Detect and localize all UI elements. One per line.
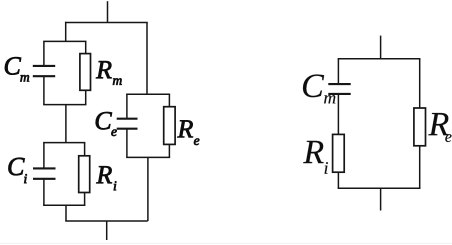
wire: block3 bottom edge	[126, 156, 170, 158]
wire: block1 left leg lower	[43, 77, 45, 105]
label R_e (left)	[177, 120, 199, 145]
resistor R_i (right) body	[333, 134, 345, 172]
wire: block2 left leg lower	[43, 180, 45, 206]
wire: right circuit top lead	[380, 36, 382, 59]
wire: right circuit left leg middle	[337, 95, 339, 135]
label C_m (left)	[5, 57, 29, 81]
resistor R_e (right) body	[414, 108, 426, 146]
wire: right circuit left leg lower	[337, 172, 339, 188]
wire: block2 left leg upper	[43, 143, 45, 168]
capacitor C_e plates	[117, 119, 138, 129]
wire: left circuit top lead	[107, 1, 109, 22]
wire: block1 top edge	[43, 40, 86, 42]
label C_e (left)	[96, 112, 117, 136]
wire: right branch drop to block3	[146, 23, 148, 95]
wire: right circuit right leg upper	[419, 59, 421, 108]
wire: block3 left leg lower	[126, 129, 128, 157]
capacitor C_i plates	[33, 168, 56, 178]
wire: block3 right leg upper	[168, 94, 170, 106]
capacitor C_m (right) plates	[328, 84, 350, 94]
capacitor C_m plates	[33, 66, 55, 76]
resistor R_e body	[164, 107, 175, 145]
label C_m (right)	[303, 74, 335, 103]
wire: block1 bottom edge	[43, 104, 86, 106]
wire: connector block2 to bottom	[65, 205, 67, 221]
label R_e (right)	[428, 113, 451, 142]
wire: block3 bottom to bottom horizontal	[147, 157, 149, 221]
label C_i (left)	[8, 158, 26, 183]
wire: block1 right leg upper	[85, 41, 87, 53]
wire: left circuit bottom horizontal	[65, 220, 148, 222]
wire: drop from top to block1	[65, 22, 67, 42]
wire: left circuit top horizontal	[65, 22, 148, 24]
wire: block2 bottom edge	[43, 204, 85, 206]
wire: right circuit right leg lower	[419, 146, 421, 189]
wire: series connector block1-block2	[65, 105, 67, 143]
wire: block3 top edge	[126, 93, 170, 95]
wire: right circuit bottom lead	[380, 188, 382, 210]
wire: block1 left leg upper	[43, 41, 45, 65]
faint page rule at bottom	[0, 242, 452, 244]
wire: block2 top edge	[43, 142, 85, 144]
wire: block1 right leg lower	[85, 90, 87, 104]
wire: block2 right leg lower	[84, 193, 86, 206]
wire: right circuit left leg upper	[337, 59, 339, 84]
label R_i (left)	[96, 166, 116, 190]
wire: block3 right leg lower	[168, 144, 170, 157]
label R_m (left)	[96, 61, 122, 85]
resistor R_m body	[80, 54, 91, 91]
label R_i (right)	[303, 141, 328, 174]
wire: block3 left leg upper	[126, 94, 128, 118]
wire: right circuit box bottom edge	[338, 187, 421, 189]
wire: block2 right leg upper	[84, 143, 86, 156]
wire: right circuit box top edge	[338, 58, 421, 60]
resistor R_i body	[79, 156, 90, 193]
wire: left circuit bottom lead	[106, 221, 108, 240]
